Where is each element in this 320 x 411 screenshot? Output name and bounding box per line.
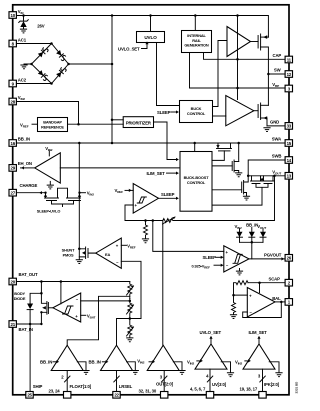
pin 20 BAT_OUT	[9, 272, 38, 285]
svg-text:ILIM_SET: ILIM_SET	[249, 330, 268, 335]
wire CHARGE	[16, 191, 45, 194]
comparator EH_ON (points left)	[21, 146, 61, 185]
resistor R3 (BAT divider top, adjustable)	[127, 282, 135, 303]
wire bandgap to prioritizer	[68, 123, 124, 125]
svg-text:4, 5, 6, 7: 4, 5, 6, 7	[190, 386, 206, 391]
svg-text:26V: 26V	[37, 24, 44, 29]
wire BAT_IN to SHIP pin	[29, 324, 31, 391]
diode D5 (VIN2 or-ing)	[235, 224, 243, 242]
node VBP junction	[236, 87, 239, 90]
pin 32 31 30 OUT	[139, 382, 174, 398]
wire BUCK CONTROL to upper driver	[213, 41, 228, 107]
wire UVLO to BUCK CONTROL	[157, 43, 180, 106]
transistor M2 (buck NMOS)	[258, 103, 268, 126]
wire BUCK CONTROL to lower driver	[213, 115, 226, 117]
BUCK CONTROL block	[180, 101, 213, 123]
svg-text:CAP: CAP	[273, 53, 282, 58]
svg-text:CONTROL: CONTROL	[187, 111, 206, 116]
wire AC1	[16, 43, 51, 45]
label UVLO_SET input	[118, 41, 149, 51]
transistor M5 (switch C NMOS)	[213, 176, 249, 196]
pin 14 SWB	[272, 154, 293, 164]
resistor R6 (SCAP top)	[232, 281, 285, 297]
comparator ILIM/SLEEP (hysteresis)	[115, 184, 159, 214]
pin 21 BAT_IN	[9, 321, 33, 332]
wire BB_IN rail	[16, 142, 285, 145]
wire IRG to VBP rail	[190, 53, 286, 89]
resistor R7 (SCAP bottom)	[232, 295, 236, 314]
svg-text:UVLO: UVLO	[144, 35, 157, 40]
pin 3 VBP	[272, 82, 292, 92]
wire bridge output	[69, 63, 113, 65]
wire bridge minus to ground	[24, 63, 32, 66]
amplifier U3 (ideal diode, hysteresis, points left)	[53, 282, 130, 323]
ground (buffer B1)	[82, 371, 89, 375]
wire BAT_OUT	[16, 280, 129, 283]
transistor M1 (buck PMOS)	[258, 34, 268, 74]
BANDGAP REFERENCE block	[20, 118, 68, 132]
wire IRG to CAP line	[204, 53, 286, 60]
svg-text:UVLO_SET: UVLO_SET	[200, 330, 222, 335]
wire ILIM comparator + input to divider rail	[125, 205, 163, 221]
pin 16 BB_IN	[9, 137, 30, 147]
svg-text:FLOAT[1:0]: FLOAT[1:0]	[70, 384, 92, 389]
resistor R2 (VOUT feedback, adjustable)	[163, 176, 275, 224]
svg-text:SCAP: SCAP	[269, 277, 281, 282]
amplifier U4 (supercap balancer)	[243, 283, 285, 318]
svg-text:REFERENCE: REFERENCE	[41, 125, 64, 130]
svg-text:BAT_OUT: BAT_OUT	[19, 272, 38, 277]
svg-text:PRIORITIZER: PRIORITIZER	[126, 120, 151, 125]
label SLEEP into BUCK CONTROL	[157, 110, 179, 115]
ground (BAT divider)	[126, 338, 133, 342]
wire prioritizer output to buck-boost control	[154, 122, 179, 161]
INTERNAL RAIL GENERATION block	[182, 16, 212, 53]
ground (SCAP divider)	[230, 315, 237, 319]
comparator PGVOUT (hysteresis)	[192, 246, 250, 272]
svg-text:EA: EA	[105, 252, 110, 257]
diode D6 (BB_IN or-ing)	[246, 223, 258, 243]
pin 19 18 17 IPK	[240, 382, 280, 398]
bridge diode D3 (left-bottom edge)	[38, 70, 49, 81]
wire ILIM_SET output	[249, 330, 268, 344]
svg-text:PMOS: PMOS	[63, 252, 74, 257]
node SWB-VOUT junctions	[247, 175, 276, 178]
UVLO block	[137, 16, 165, 43]
svg-text:SLEEP: SLEEP	[157, 110, 171, 115]
svg-text:UVLO_SET: UVLO_SET	[118, 46, 140, 51]
PRIORITIZER block	[123, 117, 153, 128]
svg-text:SHIP: SHIP	[33, 384, 43, 389]
diode D7 (VOUT or-ing)	[257, 224, 266, 242]
pin 26 PGVOUT	[264, 253, 292, 261]
amplifier EA	[89, 238, 142, 319]
wire UV bus	[206, 369, 213, 391]
bridge diode D2 (top-right edge)	[56, 50, 67, 61]
diode D8 (body diode)	[27, 282, 43, 326]
BUCK-BOOST CONTROL block	[180, 152, 212, 212]
svg-text:32, 31, 30: 32, 31, 30	[139, 389, 157, 394]
transistor Q3 (charge switch PMOS pair)	[37, 188, 81, 213]
transistor M6 M7 (switch D PMOS pair)	[213, 176, 275, 205]
svg-text:SWA: SWA	[272, 137, 281, 142]
pin 1 BAL	[272, 296, 292, 305]
pin 4 5 6 7 UV	[190, 382, 227, 398]
pin 27 CHARGE	[9, 183, 38, 196]
pin 13 VOUT	[272, 169, 292, 179]
driver U2 (buck low-side gate driver)	[226, 96, 258, 126]
wire to PGVOUT comparator plus	[153, 221, 224, 252]
wire SLEEP output	[159, 192, 179, 200]
ground (shunt PMOS)	[76, 260, 83, 264]
wire SWB	[248, 160, 285, 176]
svg-text:3331 BD: 3331 BD	[295, 381, 299, 394]
wire FLOAT buffer to divider node	[67, 296, 130, 345]
ground (buffer B3)	[178, 371, 185, 375]
svg-text:ILIM_SET: ILIM_SET	[147, 171, 166, 176]
pin 25 SHIP	[26, 384, 43, 398]
svg-text:GENERATION: GENERATION	[184, 43, 208, 48]
buffer B2 (LRSEL input)	[89, 345, 136, 370]
svg-text:19, 18, 17: 19, 18, 17	[240, 386, 258, 391]
pin 9 AC2	[9, 78, 27, 87]
resistor R4 (BAT divider mid, adjustable)	[127, 299, 135, 320]
pin 29 EH_ON	[9, 161, 32, 171]
wire VIN column to BB_IN rail	[111, 16, 113, 144]
ground (buffer B2)	[132, 371, 139, 375]
wire LRSEL buffer to divider node	[117, 319, 142, 346]
buffer B1 (FLOAT inputs)	[40, 345, 86, 370]
wire AC2	[16, 83, 51, 85]
pin 28 VIN2	[9, 95, 25, 105]
svg-text:BB_IN: BB_IN	[18, 137, 30, 142]
wire CHARGE FET to VIN2	[80, 191, 95, 197]
resistor R1 (to ground)	[144, 221, 148, 239]
svg-text:SWB: SWB	[272, 154, 282, 159]
svg-text:UV[3:0]: UV[3:0]	[212, 382, 227, 387]
wire or-ing diode bus	[240, 241, 264, 259]
svg-text:SLEEP•UVLO: SLEEP•UVLO	[37, 208, 61, 213]
svg-text:SLEEP: SLEEP	[203, 255, 217, 260]
ground (switch B)	[235, 173, 242, 177]
ground (buck NMOS source)	[263, 128, 270, 132]
wire driver power column	[237, 16, 239, 100]
ground (EH_ON comparator)	[47, 185, 54, 189]
label BODY DIODE	[14, 291, 26, 301]
pin 15 SWA	[272, 137, 293, 147]
pin 11 CAP	[273, 53, 293, 63]
transistor M4 (switch B NMOS)	[213, 143, 239, 173]
svg-text:DIODE: DIODE	[14, 296, 26, 301]
buffer B5 (IPK inputs)	[235, 344, 279, 372]
wire rail sense into buck-boost control top	[194, 143, 196, 152]
buffer B4 (UV inputs)	[187, 344, 231, 372]
ground (R1)	[142, 239, 149, 243]
buffer B3 (OUT inputs)	[137, 345, 182, 370]
driver U1 (buck high-side gate driver)	[227, 27, 258, 57]
svg-text:GND: GND	[270, 120, 279, 125]
ground (PGVOUT comparator)	[236, 271, 243, 275]
transistor M9 (ideal diode PMOS)	[40, 293, 53, 324]
svg-text:BB_IN: BB_IN	[40, 360, 52, 365]
wire VIN to prioritizer	[111, 119, 123, 122]
pin 12 SW	[274, 68, 293, 78]
node bridge output junction	[111, 63, 114, 66]
transistor M8 (shunt PMOS)	[62, 143, 96, 259]
transistor M3 (switch A PMOS)	[213, 143, 232, 160]
svg-text:OUT[2:0]: OUT[2:0]	[156, 382, 174, 387]
pin 2 SCAP	[269, 277, 293, 287]
svg-text:LRSEL: LRSEL	[119, 384, 133, 389]
svg-text:EH_ON: EH_ON	[18, 161, 32, 166]
pin 33 GND	[270, 120, 292, 130]
label ILIM_SET into buck-boost control	[147, 171, 179, 176]
wire VIN2 to bandgap output node	[16, 102, 79, 126]
wire VIN bus	[16, 14, 268, 37]
wire PGVOUT output	[249, 257, 285, 260]
bridge diode D1 (left-top edge)	[38, 46, 49, 57]
wire LRSEL bus	[114, 371, 120, 391]
pin 10 VIN	[9, 9, 24, 18]
resistor R5 (BAT divider bottom, adjustable)	[127, 319, 135, 338]
bridge diode D4 (bottom-right edge)	[56, 66, 67, 77]
ground (buffer B4)	[227, 373, 234, 377]
wire FLOAT bus	[61, 371, 70, 391]
wire IPK bus	[258, 369, 265, 391]
wire SW	[267, 73, 285, 106]
pin 23 24 FLOAT	[49, 384, 92, 398]
svg-text:BB_IN: BB_IN	[89, 360, 101, 365]
ground (buffer B5)	[275, 373, 282, 377]
svg-text:CHARGE: CHARGE	[20, 183, 38, 188]
node CAP junction	[236, 58, 239, 61]
wire VOUT row	[248, 175, 285, 177]
svg-text:IPK[2:0]: IPK[2:0]	[264, 382, 280, 387]
svg-text:CONTROL: CONTROL	[187, 180, 206, 185]
svg-text:SLEEP: SLEEP	[161, 192, 175, 197]
svg-text:PGVOUT: PGVOUT	[264, 253, 282, 258]
ground (switch C)	[243, 196, 250, 200]
diode bridge rectifier	[30, 42, 70, 85]
ground (bridge)	[20, 65, 27, 69]
zener diode 26V	[19, 16, 45, 29]
svg-text:BAT_IN: BAT_IN	[19, 327, 33, 332]
wire GND pin	[267, 125, 285, 127]
wire BAT_IN	[16, 323, 41, 325]
wire OUT buffer riser	[162, 221, 164, 346]
wire UVLO_SET output	[200, 330, 222, 344]
ground (zener)	[20, 29, 27, 33]
svg-text:AC1: AC1	[18, 38, 27, 43]
svg-text:23, 24: 23, 24	[49, 389, 61, 394]
wire OUT bus	[160, 371, 167, 391]
svg-text:SW: SW	[274, 68, 282, 73]
pin 22 LRSEL	[113, 384, 133, 398]
svg-text:AC2: AC2	[18, 78, 27, 83]
node divider rail junctions	[144, 219, 154, 222]
pin 8 AC1	[9, 38, 27, 47]
wire EH_ON input from buck-boost control	[60, 167, 179, 169]
svg-text:BAL: BAL	[272, 296, 281, 301]
